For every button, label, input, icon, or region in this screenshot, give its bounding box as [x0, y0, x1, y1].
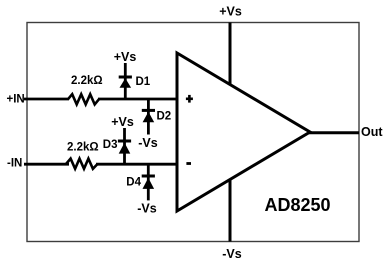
- svg-text:+Vs: +Vs: [114, 50, 137, 64]
- wire D2 branch: [147, 99, 150, 135]
- op-amp inverting pin - label: [186, 162, 191, 165]
- diode D4 (cathode bar top to signal, anode bottom to -Vs): [142, 176, 155, 189]
- svg-text:-Vs: -Vs: [138, 136, 158, 150]
- svg-text:-Vs: -Vs: [222, 247, 242, 261]
- svg-text:D2: D2: [157, 111, 172, 123]
- wire -IN input segment right: [96, 163, 177, 166]
- svg-text:D1: D1: [136, 76, 151, 88]
- op-amp U1 AD8250 triangle: [177, 53, 310, 211]
- resistor R1 2.2k zigzag: [68, 94, 99, 104]
- svg-text:+Vs: +Vs: [111, 115, 134, 129]
- wire D1 branch: [124, 63, 127, 99]
- svg-text:+Vs: +Vs: [219, 4, 242, 18]
- border frame rectangle: [27, 23, 359, 242]
- wire -Vs supply vertical: [229, 180, 232, 242]
- svg-text:D4: D4: [126, 177, 141, 189]
- wire +IN input segment left: [24, 98, 69, 101]
- wire -IN input segment left: [24, 163, 69, 166]
- wire +IN input segment right: [98, 98, 177, 101]
- wire D3 branch: [123, 128, 126, 164]
- svg-text:-IN: -IN: [7, 158, 22, 170]
- svg-text:AD8250: AD8250: [265, 195, 331, 215]
- diode D3 (anode bottom, cathode bar top to +Vs): [118, 141, 131, 154]
- svg-text:D3: D3: [103, 139, 118, 151]
- svg-text:2.2kΩ: 2.2kΩ: [67, 142, 99, 154]
- wire +Vs supply vertical: [229, 23, 232, 86]
- wire output: [308, 131, 359, 134]
- diode D1 (anode bottom, cathode bar top to +Vs): [119, 77, 132, 88]
- svg-text:-Vs: -Vs: [137, 202, 157, 216]
- op-amp non-inverting pin + label: [186, 95, 193, 103]
- svg-text:+IN: +IN: [7, 94, 25, 106]
- svg-text:Out: Out: [361, 125, 383, 139]
- wire D4 branch: [147, 164, 150, 200]
- resistor R2 2.2k zigzag: [66, 159, 98, 169]
- svg-text:2.2kΩ: 2.2kΩ: [71, 75, 103, 87]
- diode D2 (cathode bar top to signal, anode bottom to -Vs): [142, 110, 155, 122]
